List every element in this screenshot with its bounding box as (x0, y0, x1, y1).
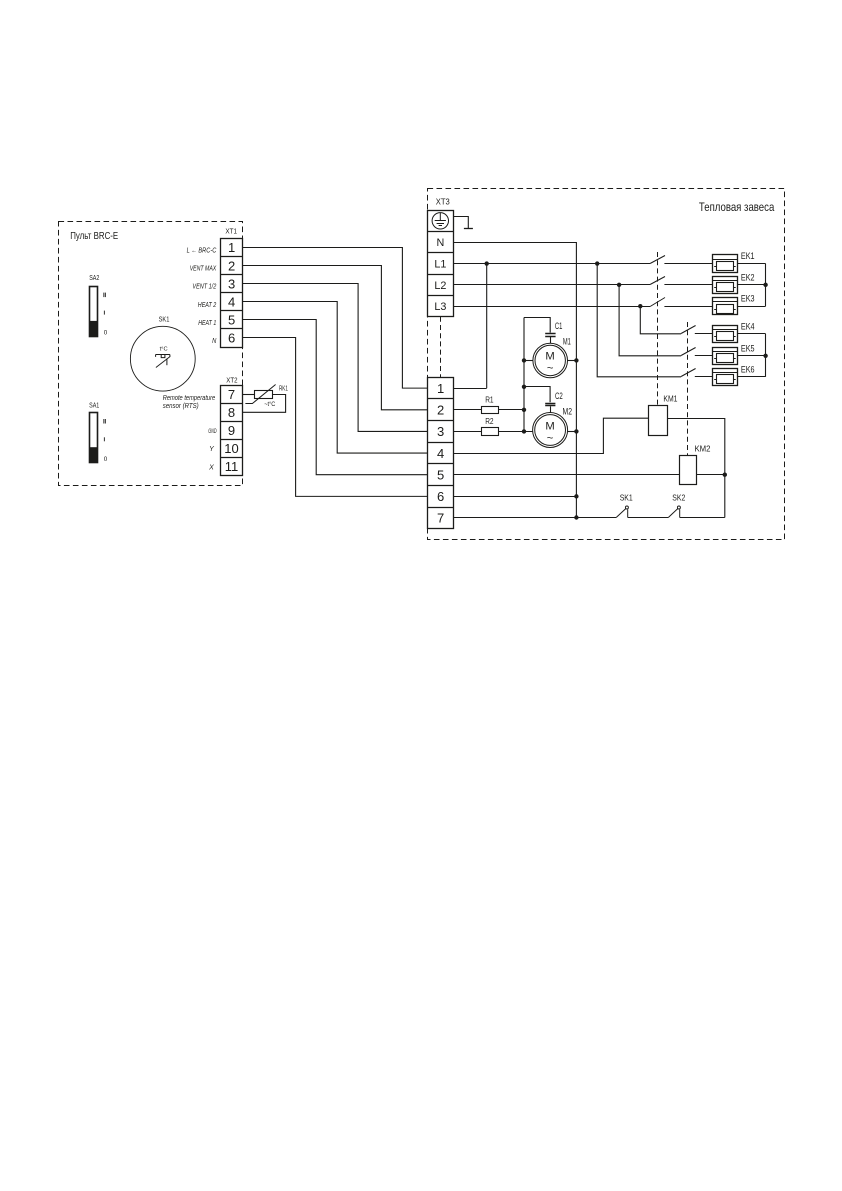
svg-text:t°C: t°C (160, 347, 168, 353)
wire M1 left lead (524, 360, 533, 362)
node M1 left (522, 358, 526, 362)
dashed continuation between XT3 and terminal strip 1-7 (440, 317, 442, 378)
earth ground symbol wire from XT3 PE (453, 217, 473, 229)
wire terminal 2 to R1 (453, 409, 481, 411)
wire contact to EK3 (664, 306, 712, 308)
contact KM2.2 (normally open) (681, 348, 696, 356)
svg-text:4: 4 (437, 446, 444, 461)
svg-text:SA1: SA1 (89, 400, 99, 409)
thermal switch SK1 (616, 493, 633, 518)
wire C1 to M1 (550, 337, 552, 343)
wire terminal 7 to SK1 (453, 517, 616, 519)
svg-text:R1: R1 (485, 395, 494, 404)
terminal strip 1-7 (427, 378, 453, 529)
wire EK3 to star point (737, 306, 765, 308)
wire contact to EK5 (695, 355, 712, 357)
heater element EK3 (712, 294, 755, 315)
svg-text:3: 3 (228, 276, 235, 291)
heater element EK1 (712, 251, 755, 272)
switch SA2 (slider) (89, 273, 108, 336)
svg-text:6: 6 (437, 489, 444, 504)
node terminal7-N bus (574, 515, 578, 519)
node column-R2-M2 (522, 429, 526, 433)
svg-text:HEAT 2: HEAT 2 (198, 302, 217, 309)
svg-text:GND: GND (208, 428, 217, 435)
contact KM1.1 (normally open) (650, 256, 665, 264)
svg-text:XT3: XT3 (436, 198, 451, 207)
svg-text:M: M (545, 350, 554, 362)
svg-text:0: 0 (104, 456, 108, 463)
XT2 pin 9 label GND (208, 428, 217, 435)
capacitor C1 (545, 321, 562, 336)
node L1-EK6 junction (595, 261, 599, 265)
svg-text:L2: L2 (434, 280, 446, 292)
heater element EK6 (712, 364, 755, 385)
wire L3 row (453, 306, 650, 308)
terminal strip pin 4 (437, 446, 444, 461)
svg-text:EK6: EK6 (741, 364, 755, 374)
heat curtain enclosure Тепловая завеса (dashed box) (428, 189, 785, 540)
svg-text:EK5: EK5 (741, 343, 755, 353)
enclosure title "Пульт BRC-E" (70, 231, 118, 242)
svg-text:C2: C2 (555, 391, 563, 401)
svg-text:M2: M2 (563, 407, 573, 417)
svg-text:SK1: SK1 (620, 493, 633, 503)
wire star point bus EK4-EK6 (765, 334, 767, 377)
svg-text:~t°C: ~t°C (264, 400, 276, 408)
wire XT1-5 to terminal 5 (243, 320, 428, 475)
svg-text:7: 7 (437, 511, 444, 526)
svg-text:8: 8 (228, 405, 235, 420)
wire R2 to M2 (498, 431, 533, 433)
svg-text:RK1: RK1 (279, 386, 288, 393)
XT1 pin 4 label "HEAT 2" (198, 302, 217, 309)
wire terminal 6 to N bus (453, 496, 576, 498)
wire EK5 to star point (737, 355, 765, 357)
terminal strip pin 6 (437, 489, 444, 504)
wire XT1-3 to terminal 3 (243, 284, 428, 432)
XT3 terminal L1 (434, 258, 446, 270)
svg-text:11: 11 (225, 459, 239, 474)
wire contact to EK1 (664, 263, 712, 265)
wire XT1-4 to terminal 4 (243, 302, 428, 454)
wire L1 branch to EK6 contact (597, 264, 681, 377)
svg-text:KM2: KM2 (695, 443, 711, 453)
node M2 right on N bus (574, 429, 578, 433)
XT1 pin 4 (228, 294, 235, 309)
svg-text:10: 10 (224, 441, 238, 456)
terminal block XT2 (221, 375, 243, 475)
XT1 pin 5 (228, 313, 235, 328)
svg-text:sensor (RTS): sensor (RTS) (163, 401, 199, 410)
XT1 pin 1 (228, 240, 235, 255)
wire L1 to terminal 1 riser (453, 264, 487, 389)
KM1 control dashed link (657, 252, 659, 406)
wire EK2 to star point (737, 284, 765, 286)
wire terminal 4 to KM1 coil (453, 418, 648, 453)
svg-text:1: 1 (228, 240, 235, 255)
XT2 pin 11 label X (208, 465, 214, 472)
wire contact to EK2 (664, 284, 712, 286)
heater element EK4 (712, 321, 755, 342)
svg-text:EK1: EK1 (741, 251, 755, 261)
svg-text:EK3: EK3 (741, 294, 755, 304)
terminal block XT3 (427, 198, 453, 317)
wire KM1 right to corner column (668, 419, 725, 518)
svg-text:7: 7 (228, 387, 235, 402)
wire XT2-7 to RK1 to XT2-8 (243, 395, 286, 413)
terminal strip pin 3 (437, 424, 444, 439)
wire star point bus EK1-EK3 (765, 264, 767, 307)
wire L1 row (453, 263, 650, 265)
wire EK1 to star point (737, 263, 765, 265)
wire L2 row (453, 284, 650, 286)
wire terminal 5 to KM2 coil (453, 474, 680, 476)
svg-text:~: ~ (547, 363, 554, 375)
wire M2 right lead to N bus (568, 431, 577, 433)
svg-text:3: 3 (437, 424, 444, 439)
thermistor RK1 (remote temperature sensor) (245, 385, 288, 408)
XT2 pin 9 (228, 423, 235, 438)
svg-text:KM1: KM1 (663, 394, 677, 404)
wire N bus: XT3-N right then down to rows (453, 243, 576, 518)
heater element EK2 (712, 272, 755, 293)
XT1 pin 6 label "N" (212, 338, 217, 345)
contact KM2.1 (normally open) (681, 326, 696, 334)
terminal block XT1 (221, 227, 243, 348)
contact KM1.2 (normally open) (650, 277, 665, 285)
contactor coil KM2 (680, 443, 711, 484)
thermal switch SK2 (668, 493, 685, 518)
svg-text:XT1: XT1 (225, 227, 237, 236)
wire EK6 to star point (737, 376, 765, 378)
XT3 protective earth terminal (PE symbol) (432, 213, 448, 230)
XT3 terminal L2 (434, 280, 446, 292)
heater element EK5 (712, 343, 755, 364)
XT2 label "Remote temperature sensor (RTS)" (163, 393, 216, 410)
node M1 right on N bus (574, 358, 578, 362)
svg-text:HEAT 1: HEAT 1 (198, 320, 216, 327)
resistor R1 (482, 395, 499, 413)
wire M1 right lead to N bus (568, 360, 577, 362)
svg-text:EK4: EK4 (741, 321, 755, 331)
wire KM2 right lead (696, 474, 725, 476)
svg-text:L1: L1 (434, 258, 446, 270)
svg-text:VENT 1/2: VENT 1/2 (192, 284, 216, 291)
svg-text:EK2: EK2 (741, 272, 755, 282)
node column-C2 branch (522, 385, 526, 389)
svg-text:M: M (545, 420, 554, 432)
motor M1 (533, 337, 571, 378)
wire XT1-2 to terminal 2 (243, 266, 428, 410)
svg-text:M1: M1 (563, 337, 571, 347)
wire XT1-6 to terminal 6 (243, 338, 428, 497)
XT1 pin 2 label "VENT MAX" (190, 266, 217, 273)
svg-text:5: 5 (437, 467, 444, 482)
svg-text:SK2: SK2 (672, 493, 685, 503)
XT1 pin 6 (228, 331, 235, 346)
XT1 pin 5 label "HEAT 1" (198, 320, 216, 327)
wire motor feed column (523, 318, 525, 432)
svg-text:L3: L3 (434, 301, 446, 313)
svg-text:SK1: SK1 (159, 314, 170, 323)
terminal strip pin 1 (437, 381, 444, 396)
svg-text:~: ~ (547, 432, 554, 444)
contact KM1.3 (normally open) (650, 298, 665, 307)
wire contact to EK6 (695, 376, 712, 378)
XT1 pin 2 (228, 258, 235, 273)
wire R1 to motor column (498, 409, 524, 411)
svg-text:XT2: XT2 (226, 375, 237, 384)
wire EK4 to star point (737, 333, 765, 335)
svg-text:L ← BRC-C: L ← BRC-C (187, 247, 217, 254)
svg-text:SA2: SA2 (89, 273, 99, 282)
node star EK1-3 (763, 283, 767, 287)
contact KM2.3 (normally open) (681, 369, 696, 377)
capacitor C2 (545, 391, 563, 406)
terminal strip pin 5 (437, 467, 444, 482)
node terminal6-N bus (574, 494, 578, 498)
svg-text:N: N (436, 237, 444, 249)
wire column to C1 (524, 318, 550, 333)
XT1 pin 1 label "L ← BRC-C" (187, 247, 217, 254)
svg-text:R2: R2 (485, 417, 494, 426)
contactor coil KM1 (649, 394, 678, 436)
node column-R1 (522, 408, 526, 412)
XT1 pin 3 label "VENT 1/2" (192, 284, 216, 291)
wire L3 branch to EK4 contact (640, 307, 681, 334)
wire SK2 to corner column (680, 517, 725, 519)
svg-text:4: 4 (228, 294, 235, 309)
node L2-EK5 junction (617, 283, 621, 287)
svg-text:C1: C1 (555, 321, 563, 331)
svg-text:1: 1 (437, 381, 444, 396)
svg-text:0: 0 (104, 329, 108, 336)
terminal strip pin 2 (437, 402, 444, 417)
wire L2 branch to EK5 contact (619, 285, 681, 356)
svg-text:Тепловая завеса: Тепловая завеса (699, 200, 775, 214)
wire C2 to M2 (550, 406, 552, 412)
motor M2 (533, 407, 572, 448)
XT2 pin 10 (224, 441, 238, 456)
wire XT1-1 to terminal 1 (243, 248, 428, 389)
svg-text:VENT MAX: VENT MAX (190, 266, 217, 273)
wire column branch to C2 (524, 387, 550, 403)
thermostat knob SK1 (130, 314, 195, 391)
wire contact to EK4 (695, 333, 712, 335)
XT2 pin 10 label Y (209, 446, 215, 453)
XT2 pin 7 (228, 387, 235, 402)
KM2 control dashed link (687, 322, 689, 455)
XT3 terminal N (436, 237, 444, 249)
switch SA1 (slider) (89, 400, 108, 463)
XT1 pin 3 (228, 276, 235, 291)
XT2 pin 11 (225, 459, 239, 474)
enclosure title "Тепловая завеса" (699, 200, 775, 214)
XT3 terminal L3 (434, 301, 446, 313)
wire terminal 3 to R2 (453, 431, 481, 433)
resistor R2 (482, 417, 499, 436)
terminal strip pin 7 (437, 511, 444, 526)
svg-text:2: 2 (437, 402, 444, 417)
svg-text:Пульт BRC-E: Пульт BRC-E (70, 231, 118, 242)
XT2 pin 8 (228, 405, 235, 420)
node KM2-right on corner column (723, 473, 727, 477)
node star EK4-6 (763, 354, 767, 358)
node L1-T1 junction (485, 261, 489, 265)
svg-text:2: 2 (228, 258, 235, 273)
svg-text:5: 5 (228, 313, 235, 328)
svg-text:9: 9 (228, 423, 235, 438)
svg-text:X: X (208, 465, 214, 472)
svg-text:6: 6 (228, 331, 235, 346)
control panel enclosure Пульт BRC-E (dashed box) (59, 222, 243, 486)
wire SK1 to SK2 (628, 517, 669, 519)
node L3-EK4 junction (638, 304, 642, 308)
